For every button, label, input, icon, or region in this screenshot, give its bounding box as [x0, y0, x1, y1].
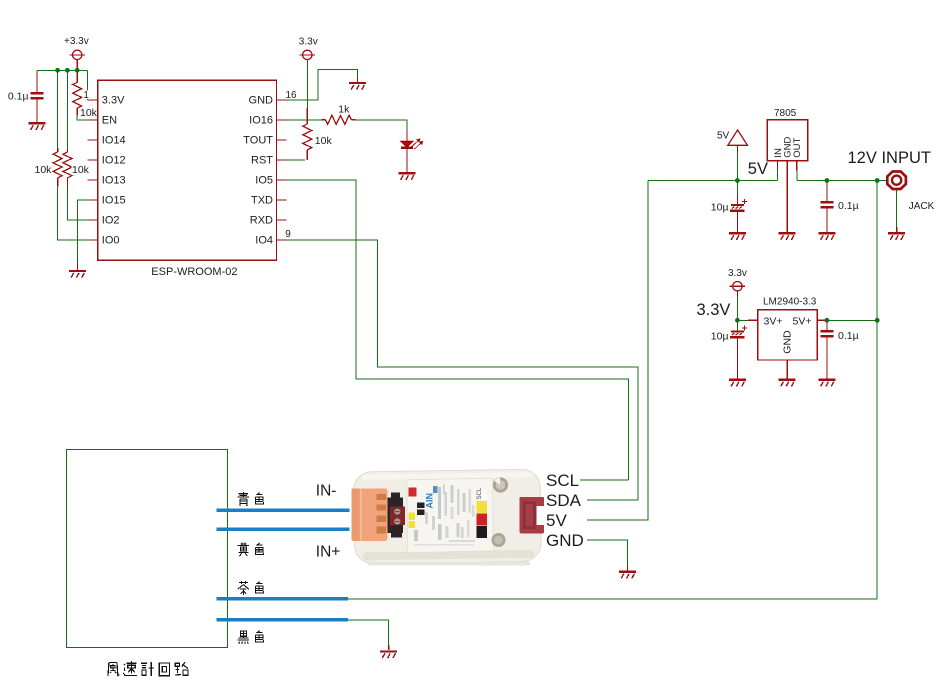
pin names right	[243, 94, 273, 246]
node anemometer circuit box	[67, 450, 228, 648]
svg-text:IO5: IO5	[255, 174, 273, 186]
svg-text:RST: RST	[251, 154, 273, 166]
wire blue IN-	[217, 508, 350, 512]
svg-text:3.3V: 3.3V	[102, 94, 125, 106]
connector JACK octagon	[887, 172, 906, 190]
wire R5 to LED	[355, 120, 407, 131]
label brown-color (cha-iro)	[238, 581, 249, 595]
wire IO4 long route to SDA	[287, 240, 639, 500]
svg-text:10k: 10k	[35, 164, 53, 176]
svg-text:7805: 7805	[774, 108, 797, 119]
svg-text:IO15: IO15	[102, 194, 126, 206]
wire blue IN+	[217, 527, 350, 531]
wire GND stub to ground	[587, 540, 628, 566]
module screw holes	[493, 477, 508, 492]
wire 12V vertical long	[876, 181, 878, 599]
wire 12V bus	[797, 180, 888, 182]
svg-text:1: 1	[83, 90, 89, 101]
wire IO15 to ground	[77, 200, 87, 262]
capacitor C3 0.1u	[826, 181, 828, 202]
supply 3.3v (LM2940)	[730, 282, 746, 291]
svg-text:5V: 5V	[748, 160, 768, 178]
sticker printed marks	[414, 485, 475, 546]
svg-text:IO16: IO16	[249, 114, 273, 126]
capacitor C2 10u polarized	[736, 181, 738, 196]
label yellow-color (ki-iro)	[238, 543, 249, 557]
svg-text:GND: GND	[249, 94, 274, 106]
7805 pin stubs	[776, 161, 778, 171]
ground below module GND	[619, 572, 636, 579]
LED D1	[406, 130, 408, 141]
wire SDA stub	[587, 499, 638, 501]
label anemometer-circuit (kaze-soku-kei-kai-ro)	[108, 662, 120, 676]
svg-text:IO0: IO0	[102, 234, 120, 246]
svg-text:10µ: 10µ	[711, 202, 729, 214]
junction dots LM2940	[735, 318, 740, 323]
svg-text:SCL: SCL	[477, 487, 483, 499]
svg-text:5V: 5V	[717, 131, 730, 142]
wire cap to ground	[36, 99, 38, 122]
svg-text:TXD: TXD	[251, 194, 273, 206]
svg-text:3.3V: 3.3V	[697, 301, 731, 319]
wire IO5 long route to SCL	[287, 180, 629, 480]
regulator LM2940-3.3 box	[758, 310, 818, 360]
svg-text:12V INPUT: 12V INPUT	[848, 149, 931, 167]
supply 5V triangle	[728, 130, 748, 145]
wire cap lead top	[36, 70, 38, 92]
wire blue black	[217, 618, 348, 622]
resistor R2 10k to IO2: leads	[66, 70, 68, 148]
ground below black wire	[380, 651, 397, 658]
svg-text:IO4: IO4	[255, 234, 273, 246]
capacitor C4 10u polarized	[736, 320, 738, 330]
svg-text:AIN: AIN	[425, 493, 435, 509]
wire black net green to ground	[348, 620, 389, 645]
wire GND pin to ground (top)	[287, 69, 358, 100]
svg-text:5V: 5V	[546, 511, 567, 530]
wire R4 to RST	[287, 159, 306, 161]
svg-text:3.3v: 3.3v	[299, 36, 318, 47]
op ESP-WROOM-02 box U1	[98, 80, 277, 260]
svg-text:3.3v: 3.3v	[728, 268, 747, 279]
svg-text:IN+: IN+	[316, 544, 341, 561]
svg-text:0.1µ: 0.1µ	[838, 330, 859, 342]
wire 5V bus	[648, 180, 778, 182]
LM2940 stubs	[748, 319, 758, 321]
label R3 value 10k	[79, 108, 97, 118]
svg-text:+3.3v: +3.3v	[64, 36, 89, 47]
module shadow	[368, 562, 530, 566]
svg-text:GND: GND	[781, 330, 793, 354]
capacitor C5 0.1u	[826, 320, 828, 330]
junction dots on 3.3v rail	[55, 68, 60, 73]
wire brown net green	[348, 598, 877, 600]
ground top middle	[349, 83, 366, 90]
sticker chips	[408, 487, 416, 496]
svg-text:GND: GND	[546, 531, 584, 550]
svg-text:IO14: IO14	[102, 134, 126, 146]
wire R3 to EN	[77, 115, 87, 120]
svg-text:TOUT: TOUT	[243, 134, 273, 146]
svg-text:LM2940-3.3: LM2940-3.3	[763, 297, 817, 308]
wire 5V stub to vertical	[587, 181, 648, 520]
label blue-color (ao-iro)	[238, 492, 250, 506]
wire jack to ground	[896, 190, 898, 227]
pin number 1	[82, 91, 88, 99]
svg-text:IO13: IO13	[102, 174, 126, 186]
wire R1 to IO0	[58, 186, 88, 240]
svg-text:0.1µ: 0.1µ	[8, 91, 29, 103]
label R2 value 10k	[71, 163, 89, 173]
wire IO16 to R5	[287, 119, 322, 121]
svg-text:IO12: IO12	[102, 154, 126, 166]
svg-text:3V+: 3V+	[764, 316, 783, 328]
resistor R3 10k (EN pullup) leads	[76, 70, 78, 82]
resistor R3 zigzag	[73, 82, 82, 108]
resistor R4 10k	[303, 124, 312, 150]
svg-text:10µ: 10µ	[711, 330, 729, 342]
svg-text:RXD: RXD	[250, 214, 273, 226]
pin stubs left	[88, 100, 98, 240]
svg-text:9: 9	[285, 229, 291, 240]
wire triangle to bus	[736, 145, 738, 151]
svg-text:EN: EN	[102, 114, 117, 126]
svg-text:0.1µ: 0.1µ	[838, 200, 859, 212]
svg-text:10k: 10k	[315, 135, 333, 147]
module orange terminal block	[352, 488, 388, 541]
regulator 7805 box	[767, 120, 808, 161]
svg-text:10k: 10k	[72, 164, 90, 176]
junction dots 12V/5V bus	[735, 178, 740, 183]
svg-text:1k: 1k	[338, 103, 350, 115]
svg-text:ESP-WROOM-02: ESP-WROOM-02	[151, 266, 237, 278]
wire 3.3v rail top-left	[37, 69, 88, 71]
svg-text:5V+: 5V+	[793, 316, 812, 328]
wire SCL stub	[580, 479, 628, 481]
module photo M5 AIN unit	[353, 469, 541, 564]
module grove connector	[520, 497, 544, 534]
supply +3.3v symbol	[69, 50, 85, 59]
svg-text:IO2: IO2	[102, 214, 120, 226]
pin stubs right	[277, 100, 287, 240]
resistor R5 1k horizontal	[322, 119, 326, 121]
svg-text:IN-: IN-	[316, 482, 337, 499]
capacitor C1 0.1u	[31, 93, 44, 98]
resistor R1 10k to IO0: leads	[57, 70, 59, 148]
supply 3.3v (RST pullup)	[300, 50, 316, 59]
ground below IO15	[69, 271, 86, 278]
ground below C1	[29, 123, 46, 130]
wire blue brown	[217, 597, 348, 601]
svg-text:SCL: SCL	[546, 471, 579, 490]
svg-text:JACK: JACK	[909, 201, 935, 212]
svg-text:SDA: SDA	[546, 491, 582, 510]
ground below LED	[399, 173, 416, 180]
svg-text:10k: 10k	[80, 107, 98, 119]
label black-color (kuro-iro)	[238, 631, 250, 644]
module black connector	[388, 497, 403, 533]
wire supply down to R4	[306, 60, 308, 108]
svg-text:OUT: OUT	[792, 137, 803, 157]
wire R2 to IO2	[67, 186, 87, 220]
module sticker	[407, 478, 494, 552]
wire rail to 3.3V pin	[87, 70, 89, 100]
pin names left	[102, 94, 126, 246]
